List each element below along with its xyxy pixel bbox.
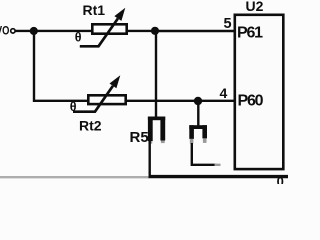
- thermistor arrow Rt1: [80, 19, 118, 47]
- svg-text:P61: P61: [237, 25, 263, 42]
- svg-text:Rt2: Rt2: [79, 118, 102, 134]
- svg-text:U2: U2: [246, 0, 264, 14]
- bottom wire black part: [149, 175, 289, 178]
- wire B to pin 5: [155, 30, 235, 32]
- junction dot A: [30, 27, 38, 35]
- vertical wire B down to R5: [155, 31, 157, 118]
- svg-text:VO: VO: [0, 25, 9, 38]
- svg-text:4: 4: [220, 85, 228, 101]
- svg-text:5: 5: [224, 16, 232, 32]
- wire VO to Rt1: [15, 30, 92, 32]
- svg-text:Rt1: Rt1: [83, 2, 106, 18]
- L-wire fade tail: [215, 164, 221, 166]
- sensor symbol: [189, 125, 207, 143]
- sensor lower lead L-wire: [192, 143, 216, 165]
- junction dot B: [151, 27, 159, 35]
- resistor R5 symbol: [148, 117, 165, 144]
- svg-text:θ: θ: [75, 31, 82, 45]
- resistor body Rt2: [88, 95, 125, 104]
- svg-text:P60: P60: [238, 92, 264, 109]
- wire Rt2 to pin 4: [126, 100, 235, 102]
- terminal circle: [11, 29, 15, 33]
- svg-text:0: 0: [277, 174, 284, 184]
- wire Rt1 to junction B: [127, 30, 156, 32]
- wire A down and across to Rt2: [34, 31, 88, 101]
- IC U2 box: [235, 15, 283, 169]
- thermistor arrow Rt2: [73, 86, 113, 112]
- bottom wire faint left part: [0, 176, 149, 178]
- svg-text:θ: θ: [70, 100, 77, 114]
- sensor stem from junction C: [197, 101, 199, 126]
- resistor body Rt1: [92, 24, 126, 33]
- svg-text:R5: R5: [130, 129, 149, 146]
- junction dot C: [194, 97, 202, 105]
- R5 lower lead: [148, 140, 150, 177]
